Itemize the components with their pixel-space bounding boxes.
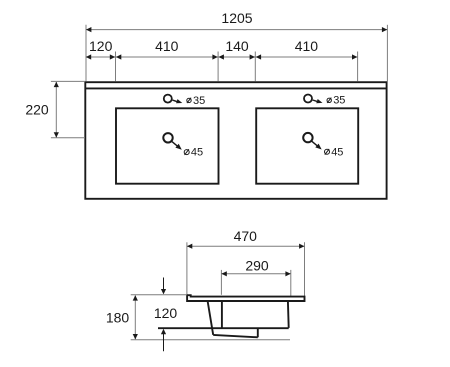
svg-text:35: 35 — [193, 95, 205, 107]
drain hole 1 label ø45 — [184, 150, 189, 155]
470 extension line right — [304, 242, 306, 296]
bowl bottom reference line (extends left) — [158, 327, 289, 329]
svg-text:410: 410 — [295, 38, 319, 54]
drain hole 2 leader — [312, 141, 322, 149]
svg-text:220: 220 — [25, 102, 49, 118]
dimension 1205 line — [86, 29, 387, 31]
svg-text:120: 120 — [89, 38, 113, 54]
180 lower extension line — [131, 339, 290, 341]
dimension row 2 line — [86, 56, 358, 58]
drain hole 2 label ø45 — [325, 149, 330, 154]
extension line x=255.3 — [254, 52, 256, 82]
svg-text:35: 35 — [333, 95, 345, 107]
faucet hole 1 label ø35 — [187, 98, 191, 102]
220 dim lower extension line — [51, 137, 85, 139]
faucet hole 2 leader — [313, 99, 323, 103]
svg-text:140: 140 — [225, 38, 249, 54]
220 dim upper extension line — [51, 80, 85, 82]
svg-text:45: 45 — [191, 147, 203, 159]
basin 1 outline — [116, 108, 219, 183]
120 top arrow (outside, pointing down) — [163, 278, 165, 290]
outer shell bottom — [213, 335, 258, 337]
290 extension line right — [290, 270, 292, 296]
row2 arrows at x=86 — [86, 54, 91, 59]
dimension 220 line — [55, 82, 57, 137]
row2 arrow at x=357.5 — [352, 54, 357, 59]
470 extension line left — [186, 242, 188, 294]
dimension 290 line — [221, 273, 290, 275]
120 bottom arrow (outside, pointing up) — [163, 334, 165, 352]
svg-text:180: 180 — [106, 309, 130, 325]
counter outline — [85, 82, 386, 199]
extension line x=115.5 — [115, 52, 117, 82]
bowl right wall — [287, 301, 290, 328]
290 extension line left — [220, 270, 222, 295]
svg-text:470: 470 — [234, 228, 258, 244]
faucet hole 1 circle — [164, 95, 172, 103]
outer shell left slanted wall — [208, 301, 214, 335]
svg-text:45: 45 — [331, 146, 343, 158]
bowl left wall — [221, 301, 223, 328]
faucet hole 2 label ø35 — [327, 98, 331, 102]
extension line x=357.6 — [357, 52, 359, 82]
countertop slab profile with front lip — [187, 295, 304, 301]
svg-text:120: 120 — [154, 305, 178, 321]
counter front strip line — [85, 87, 386, 89]
row2 arrow pair at x=218.1 — [212, 54, 217, 59]
row2 arrow pair at x=255.3 — [250, 54, 255, 59]
dimension 470 line — [187, 245, 305, 247]
extension line left (x=86) — [85, 25, 87, 82]
dimension 180 line — [134, 296, 136, 340]
faucet hole 1 leader — [173, 99, 183, 103]
drain hole 1 circle — [163, 133, 172, 142]
basin 2 outline — [256, 108, 358, 183]
svg-text:1205: 1205 — [221, 10, 252, 26]
row2 arrow pair at x=115.5 — [110, 54, 115, 59]
outer shell right wall — [257, 328, 259, 338]
svg-text:410: 410 — [155, 38, 179, 54]
180 upper extension line — [131, 294, 187, 296]
extension line right (x=387.4) — [386, 25, 388, 82]
extension line x=218.1 — [217, 52, 219, 82]
drain hole 2 circle — [303, 133, 312, 142]
svg-text:290: 290 — [245, 257, 269, 273]
faucet hole 2 circle — [304, 95, 312, 103]
drain hole 1 leader — [172, 141, 182, 149]
